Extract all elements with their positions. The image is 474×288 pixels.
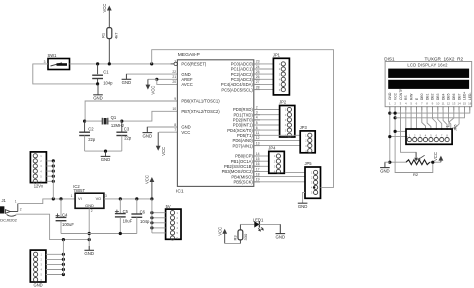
wire LCD pin5 R/W to connector <box>410 107 412 129</box>
svg-text:DB4: DB4 <box>441 93 445 100</box>
node junction crystal ground <box>104 150 107 153</box>
node junction C4 top <box>59 197 62 200</box>
ground below regulator <box>84 246 94 256</box>
svg-text:26: 26 <box>256 75 260 79</box>
wire SW1 left pin to ground net <box>33 64 98 84</box>
svg-text:16: 16 <box>256 162 260 166</box>
wire LCD pin8 DB1 to connector <box>427 107 431 130</box>
node junction GND header rail <box>62 238 65 241</box>
wire LCD pin13 DB6 bend <box>446 107 454 126</box>
capacitor C4 <box>56 199 75 234</box>
wire JP5 ground stub <box>303 192 305 202</box>
node junction reset / JP5 branch <box>150 62 153 65</box>
svg-text:10: 10 <box>436 102 440 106</box>
ground below C1 <box>93 84 103 101</box>
svg-text:7805T: 7805T <box>73 188 85 193</box>
svg-text:CONTR: CONTR <box>399 88 403 100</box>
svg-text:10: 10 <box>172 107 176 111</box>
capacitor C3 <box>116 121 131 151</box>
wire LCD pin12 DB5 to connector <box>449 107 451 130</box>
wire SW1 right pin to reset net <box>70 63 98 65</box>
svg-text:22p: 22p <box>88 137 96 142</box>
ground at LCD <box>380 162 390 173</box>
svg-text:PC6(RESET): PC6(RESET) <box>181 62 207 67</box>
svg-text:12Vx: 12Vx <box>34 183 43 188</box>
wire LCD pin2 VCC rail <box>395 107 433 172</box>
svg-text:R2: R2 <box>413 172 419 177</box>
svg-text:C2: C2 <box>88 126 94 131</box>
wires 12Vx header to rail <box>46 159 55 183</box>
svg-text:PB7(XTAL2/TOSC2): PB7(XTAL2/TOSC2) <box>181 109 220 114</box>
svg-text:AVCC: AVCC <box>181 82 192 87</box>
svg-text:2: 2 <box>256 105 258 109</box>
svg-text:GND: GND <box>93 96 103 101</box>
crystal Q1 12MHz <box>102 115 124 128</box>
connector below LCD <box>406 124 457 144</box>
svg-text:DB0: DB0 <box>420 93 424 100</box>
svg-text:8: 8 <box>174 123 176 127</box>
wire R2 right to VCC <box>430 161 441 163</box>
svg-text:PB5(SCK): PB5(SCK) <box>233 180 253 185</box>
node junction LED+ branch <box>394 116 397 119</box>
svg-text:7: 7 <box>174 128 176 132</box>
svg-text:PB6(XTAL1/TOSC1): PB6(XTAL1/TOSC1) <box>181 99 220 104</box>
VCC supply from regulator <box>145 175 155 199</box>
connector J1 DC jack DCJ0202 <box>0 198 22 222</box>
wire Q1 right <box>108 120 122 122</box>
node junction AREF/AVCC <box>155 78 158 81</box>
svg-text:C3: C3 <box>124 126 130 131</box>
VCC symbol at IC pin 7 <box>156 132 166 156</box>
svg-text:5V: 5V <box>166 204 171 209</box>
connector 12Vx header <box>30 152 46 188</box>
wire GND header rail <box>62 240 64 275</box>
node junction C6 top <box>135 197 138 200</box>
svg-text:GND: GND <box>122 80 132 85</box>
LED LED1 <box>253 217 264 231</box>
IC1 right pin stubs <box>254 64 260 182</box>
wire IC pin 9 XTAL1 <box>85 101 177 121</box>
IC pin 1 bubble PC6(RESET) <box>171 62 178 65</box>
node junction rail crossing <box>394 112 397 115</box>
svg-text:5: 5 <box>256 121 258 125</box>
svg-text:J1: J1 <box>2 198 7 203</box>
wire ground stub LCD <box>385 162 390 167</box>
connector 5V header <box>166 209 181 240</box>
svg-text:27: 27 <box>256 80 260 84</box>
wire IC pin 21 AREF to VCC <box>157 78 178 80</box>
wire reset to JP5 via top route <box>152 50 334 188</box>
node junction VCC takeoff <box>150 197 153 200</box>
svg-text:DB7: DB7 <box>457 93 461 100</box>
svg-text:LED+: LED+ <box>463 92 467 100</box>
svg-text:3: 3 <box>105 194 107 198</box>
svg-text:1: 1 <box>15 199 17 203</box>
node junction ground bus <box>88 232 91 235</box>
node junction R2 left / ground <box>388 161 391 164</box>
ground below crystal <box>101 151 111 162</box>
svg-text:14: 14 <box>457 102 461 106</box>
connector JP3 <box>300 125 316 153</box>
node junction C1-top / reset <box>96 62 99 65</box>
svg-text:VCC: VCC <box>181 130 190 135</box>
wire J1 pin1 to regulator input <box>18 199 75 204</box>
svg-text:13: 13 <box>256 141 260 145</box>
svg-text:JP2: JP2 <box>279 100 287 105</box>
svg-text:VCC: VCC <box>151 86 156 95</box>
svg-text:12: 12 <box>256 136 260 140</box>
svg-text:LCD DISPLAY 16x2: LCD DISPLAY 16x2 <box>407 63 448 68</box>
wire regulator ground pin <box>88 208 90 249</box>
wire GND rail to R2 left <box>390 161 406 163</box>
potentiometer R2 <box>406 152 430 177</box>
svg-text:17: 17 <box>256 167 260 171</box>
wire reset net to R1 and IC pin 1 <box>98 63 171 65</box>
wire PB5 to JP5 <box>254 181 305 183</box>
svg-text:C5: C5 <box>123 209 129 214</box>
VCC supply arrow above R1 <box>102 4 112 16</box>
node junction JP5 pin 4 <box>313 186 315 188</box>
svg-text:RS: RS <box>404 95 408 100</box>
svg-text:VCC: VCC <box>161 147 166 156</box>
svg-text:JP4: JP4 <box>268 146 276 151</box>
resistor R3 <box>232 224 248 243</box>
svg-text:PD7(AIN1): PD7(AIN1) <box>233 143 254 148</box>
IC IC1 MEGA8-P box <box>176 52 254 195</box>
node junction C1 bottom <box>96 82 99 85</box>
node junction C5 top <box>119 197 122 200</box>
wire IC pin 22 GND <box>126 74 177 79</box>
wire LCD pin14 DB7 bend <box>452 107 459 128</box>
svg-text:VCC: VCC <box>217 227 222 236</box>
svg-text:VCC: VCC <box>102 4 107 13</box>
svg-text:C4: C4 <box>62 213 68 218</box>
svg-text:4: 4 <box>256 116 258 120</box>
svg-text:Q1: Q1 <box>111 115 117 120</box>
node junction XTAL2 / C3 / Q1 <box>120 120 123 123</box>
svg-text:JP6: JP6 <box>453 124 457 131</box>
node junction GND rail connector tap <box>388 135 391 138</box>
svg-text:23: 23 <box>256 60 260 64</box>
svg-text:GND: GND <box>85 203 94 208</box>
wire LCD pin3 contrast to wiper <box>401 107 417 157</box>
svg-text:GND: GND <box>388 92 392 100</box>
resistor R1 <box>101 16 119 64</box>
wire LCD pin7 DB0 to connector <box>422 107 426 130</box>
IC1 left pin numbers and labels <box>172 60 220 135</box>
wire regulator output net <box>104 198 152 200</box>
svg-text:13: 13 <box>452 102 456 106</box>
svg-text:25: 25 <box>256 70 260 74</box>
svg-text:MEGA8-P: MEGA8-P <box>178 52 200 58</box>
svg-text:LED1: LED1 <box>253 217 264 222</box>
wire IC pin 7 VCC <box>159 131 178 133</box>
svg-text:GND: GND <box>298 204 308 209</box>
wires 5V header to VCC rail <box>150 211 165 233</box>
svg-text:JP5: JP5 <box>305 161 313 166</box>
svg-text:DIS1: DIS1 <box>384 56 395 61</box>
svg-text:JP1: JP1 <box>273 53 281 58</box>
svg-text:R3: R3 <box>232 235 237 241</box>
svg-text:21: 21 <box>172 75 176 79</box>
svg-text:DB1: DB1 <box>425 93 429 100</box>
svg-text:R1: R1 <box>101 32 106 38</box>
capacitor C5 <box>115 199 133 234</box>
svg-text:DB2: DB2 <box>431 93 435 100</box>
wire R3 to LED1 <box>240 223 254 225</box>
svg-text:11: 11 <box>256 131 260 135</box>
svg-text:VCC: VCC <box>145 175 150 184</box>
node junction R2 right / VCC <box>431 161 434 164</box>
wire LCD pin11 DB4 to connector <box>443 107 447 130</box>
svg-text:DB3: DB3 <box>436 93 440 100</box>
wire Q1 left <box>85 120 103 122</box>
connector JP1 <box>273 53 290 95</box>
svg-text:GND: GND <box>143 133 153 138</box>
svg-text:19: 19 <box>256 178 260 182</box>
svg-text:3: 3 <box>44 60 46 64</box>
wire J1 sleeve to ground bus <box>16 214 89 239</box>
svg-text:18: 18 <box>256 172 260 176</box>
svg-text:SW1: SW1 <box>48 53 58 58</box>
wires GND header to rail <box>46 253 65 276</box>
wire main ground bus <box>61 233 137 235</box>
svg-text:GND: GND <box>380 168 390 173</box>
capacitor C1 <box>92 64 113 86</box>
svg-text:GND: GND <box>276 234 286 239</box>
svg-text:10uF: 10uF <box>123 219 133 224</box>
svg-text:104p: 104p <box>103 81 113 86</box>
svg-text:4k7: 4k7 <box>114 32 119 39</box>
node junction C5 bottom <box>119 232 122 235</box>
svg-text:C6: C6 <box>140 209 146 214</box>
ground below JP5 <box>298 203 308 209</box>
VCC supply for LED <box>217 227 227 244</box>
svg-text:6: 6 <box>256 126 258 130</box>
svg-text:C1: C1 <box>103 69 109 74</box>
svg-text:VCC: VCC <box>393 92 397 100</box>
svg-text:LED-: LED- <box>468 92 472 100</box>
capacitor C6 <box>131 199 150 234</box>
svg-text:9: 9 <box>174 97 176 101</box>
node junction LED- branch <box>388 112 391 115</box>
wire LCD pin9 DB2 to connector <box>433 107 437 130</box>
svg-text:PC5(ADC5/SCL): PC5(ADC5/SCL) <box>221 87 253 92</box>
node junction R1 / reset <box>108 62 111 65</box>
svg-text:VI: VI <box>78 196 82 201</box>
connector JP4 <box>268 146 284 174</box>
svg-text:12: 12 <box>447 102 451 106</box>
switch SW1 <box>44 53 70 70</box>
svg-text:DB5: DB5 <box>447 93 451 100</box>
node junction 12V rail <box>52 197 55 200</box>
svg-text:20: 20 <box>172 80 176 84</box>
wire PB0-PB3 to JP4 <box>254 156 269 172</box>
svg-text:104p: 104p <box>140 219 150 224</box>
svg-text:24: 24 <box>256 65 260 69</box>
wire LCD pin1 GND rail <box>389 107 391 162</box>
wire PD0-PD4 to JP2 <box>254 110 280 131</box>
svg-text:DCJ0202: DCJ0202 <box>0 217 17 222</box>
connector JP2 <box>279 100 295 138</box>
svg-text:1: 1 <box>71 194 73 198</box>
svg-text:28: 28 <box>256 85 260 89</box>
wire PC0-PC5 to JP1 <box>254 64 274 90</box>
VCC supply at R2 <box>433 152 443 162</box>
wire IC pin 8 GND <box>147 127 177 132</box>
ground at IC pin 8 <box>143 127 153 138</box>
connector JP5 <box>305 161 321 198</box>
wire LCD pin6 E to connector <box>416 107 418 129</box>
wire PD5-PD7 to JP3 <box>254 135 300 145</box>
connector GND header <box>30 250 46 288</box>
wire PB4 to JP5 <box>254 176 305 178</box>
svg-text:100uF: 100uF <box>62 222 74 227</box>
svg-text:DB6: DB6 <box>452 93 456 100</box>
ground after LED1 <box>276 224 286 239</box>
svg-text:14: 14 <box>256 152 260 156</box>
node junction VCC rail connector tap <box>394 130 397 133</box>
wire VCC rail to 5V header <box>151 199 153 233</box>
svg-text:22p: 22p <box>124 136 132 141</box>
wire VCC branch to LED+ <box>395 107 464 118</box>
svg-text:2: 2 <box>20 207 22 211</box>
node junction regulator ground <box>88 238 91 241</box>
wire VCC rail to connector <box>395 130 406 132</box>
svg-text:11: 11 <box>442 102 445 106</box>
wire IC pin 10 XTAL2 <box>122 111 178 121</box>
svg-text:GND: GND <box>101 157 111 162</box>
ground at IC pin 22 <box>122 74 132 85</box>
capacitor C2 <box>79 121 96 151</box>
svg-text:VO: VO <box>96 196 102 201</box>
svg-text:15: 15 <box>256 157 260 161</box>
IC1 right pin numbers and labels <box>221 60 260 185</box>
wire GND branch to LED- <box>390 107 470 113</box>
svg-text:GND: GND <box>34 283 43 288</box>
wire LED1 cathode to ground <box>259 224 280 233</box>
voltage regulator IC2 7805T <box>71 184 107 213</box>
wire IC pin 20 AVCC <box>157 79 178 84</box>
svg-text:TUXGR_16X2_R2: TUXGR_16X2_R2 <box>425 56 464 61</box>
wire GND rail to connector <box>390 136 408 138</box>
svg-text:IC1: IC1 <box>176 189 184 195</box>
wire under JP4 to JP5 pin 1 <box>285 171 305 173</box>
display DIS1 TUXGR_16X2_R2 <box>384 56 471 106</box>
display pin stubs <box>390 107 470 111</box>
svg-text:GND: GND <box>84 251 94 256</box>
svg-text:1: 1 <box>174 60 176 64</box>
display pin labels <box>388 88 472 106</box>
wire 12Vx rail <box>52 161 54 199</box>
svg-text:3: 3 <box>256 111 258 115</box>
svg-text:2: 2 <box>91 209 93 213</box>
VCC symbol at AREF/AVCC <box>146 79 156 94</box>
node junction XTAL1 / C2 / Q1 <box>83 120 86 123</box>
svg-text:22: 22 <box>172 70 176 74</box>
svg-text:R/W: R/W <box>409 93 413 100</box>
wire VCC to R3 <box>225 243 241 245</box>
wire C2/C3 bottoms <box>85 150 122 152</box>
svg-text:15: 15 <box>463 102 467 106</box>
svg-text:JP3: JP3 <box>300 125 308 130</box>
wire LCD pin4 RS to connector <box>405 107 407 129</box>
svg-text:330: 330 <box>243 233 248 240</box>
svg-text:VCC: VCC <box>433 152 438 161</box>
wire VCC symbol to AREF net <box>148 78 157 80</box>
wire LCD pin10 DB3 to connector <box>438 107 442 130</box>
svg-text:16: 16 <box>468 102 472 106</box>
